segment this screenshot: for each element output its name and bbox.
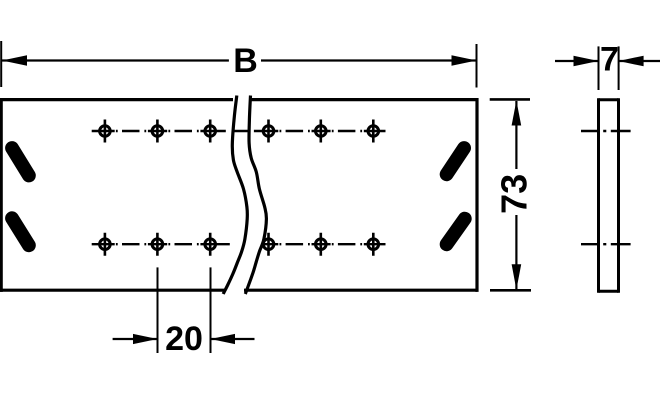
svg-text:73: 73 [494,174,535,214]
svg-text:20: 20 [165,320,203,358]
svg-text:B: B [233,42,258,80]
svg-text:7: 7 [600,41,619,79]
